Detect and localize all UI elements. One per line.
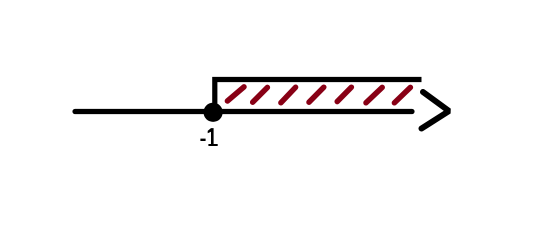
- closed endpoint dot at -1: [204, 103, 223, 122]
- hatch mark 2: [253, 87, 268, 102]
- hatch mark 1: [227, 87, 244, 101]
- hatch mark 7: [394, 87, 410, 102]
- hatch mark 3: [281, 87, 296, 103]
- hatch mark 4: [309, 87, 324, 102]
- hatch mark 6: [366, 87, 382, 102]
- label -1 : digit 1: [208, 128, 218, 146]
- label -1 : minus sign: [200, 139, 205, 141]
- interval top bracket: [215, 80, 422, 111]
- number line: [75, 109, 412, 114]
- arrowhead chevron: [422, 92, 450, 129]
- hatch mark 5: [337, 87, 351, 101]
